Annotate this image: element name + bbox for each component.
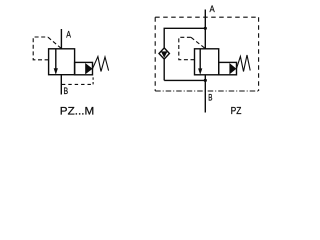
svg-text:A: A — [210, 4, 216, 15]
svg-text:A: A — [66, 30, 71, 40]
svg-text:B: B — [208, 93, 212, 104]
svg-text:PZ: PZ — [231, 106, 242, 117]
svg-text:PZ...M: PZ...M — [60, 105, 94, 117]
svg-text:B: B — [64, 86, 69, 96]
